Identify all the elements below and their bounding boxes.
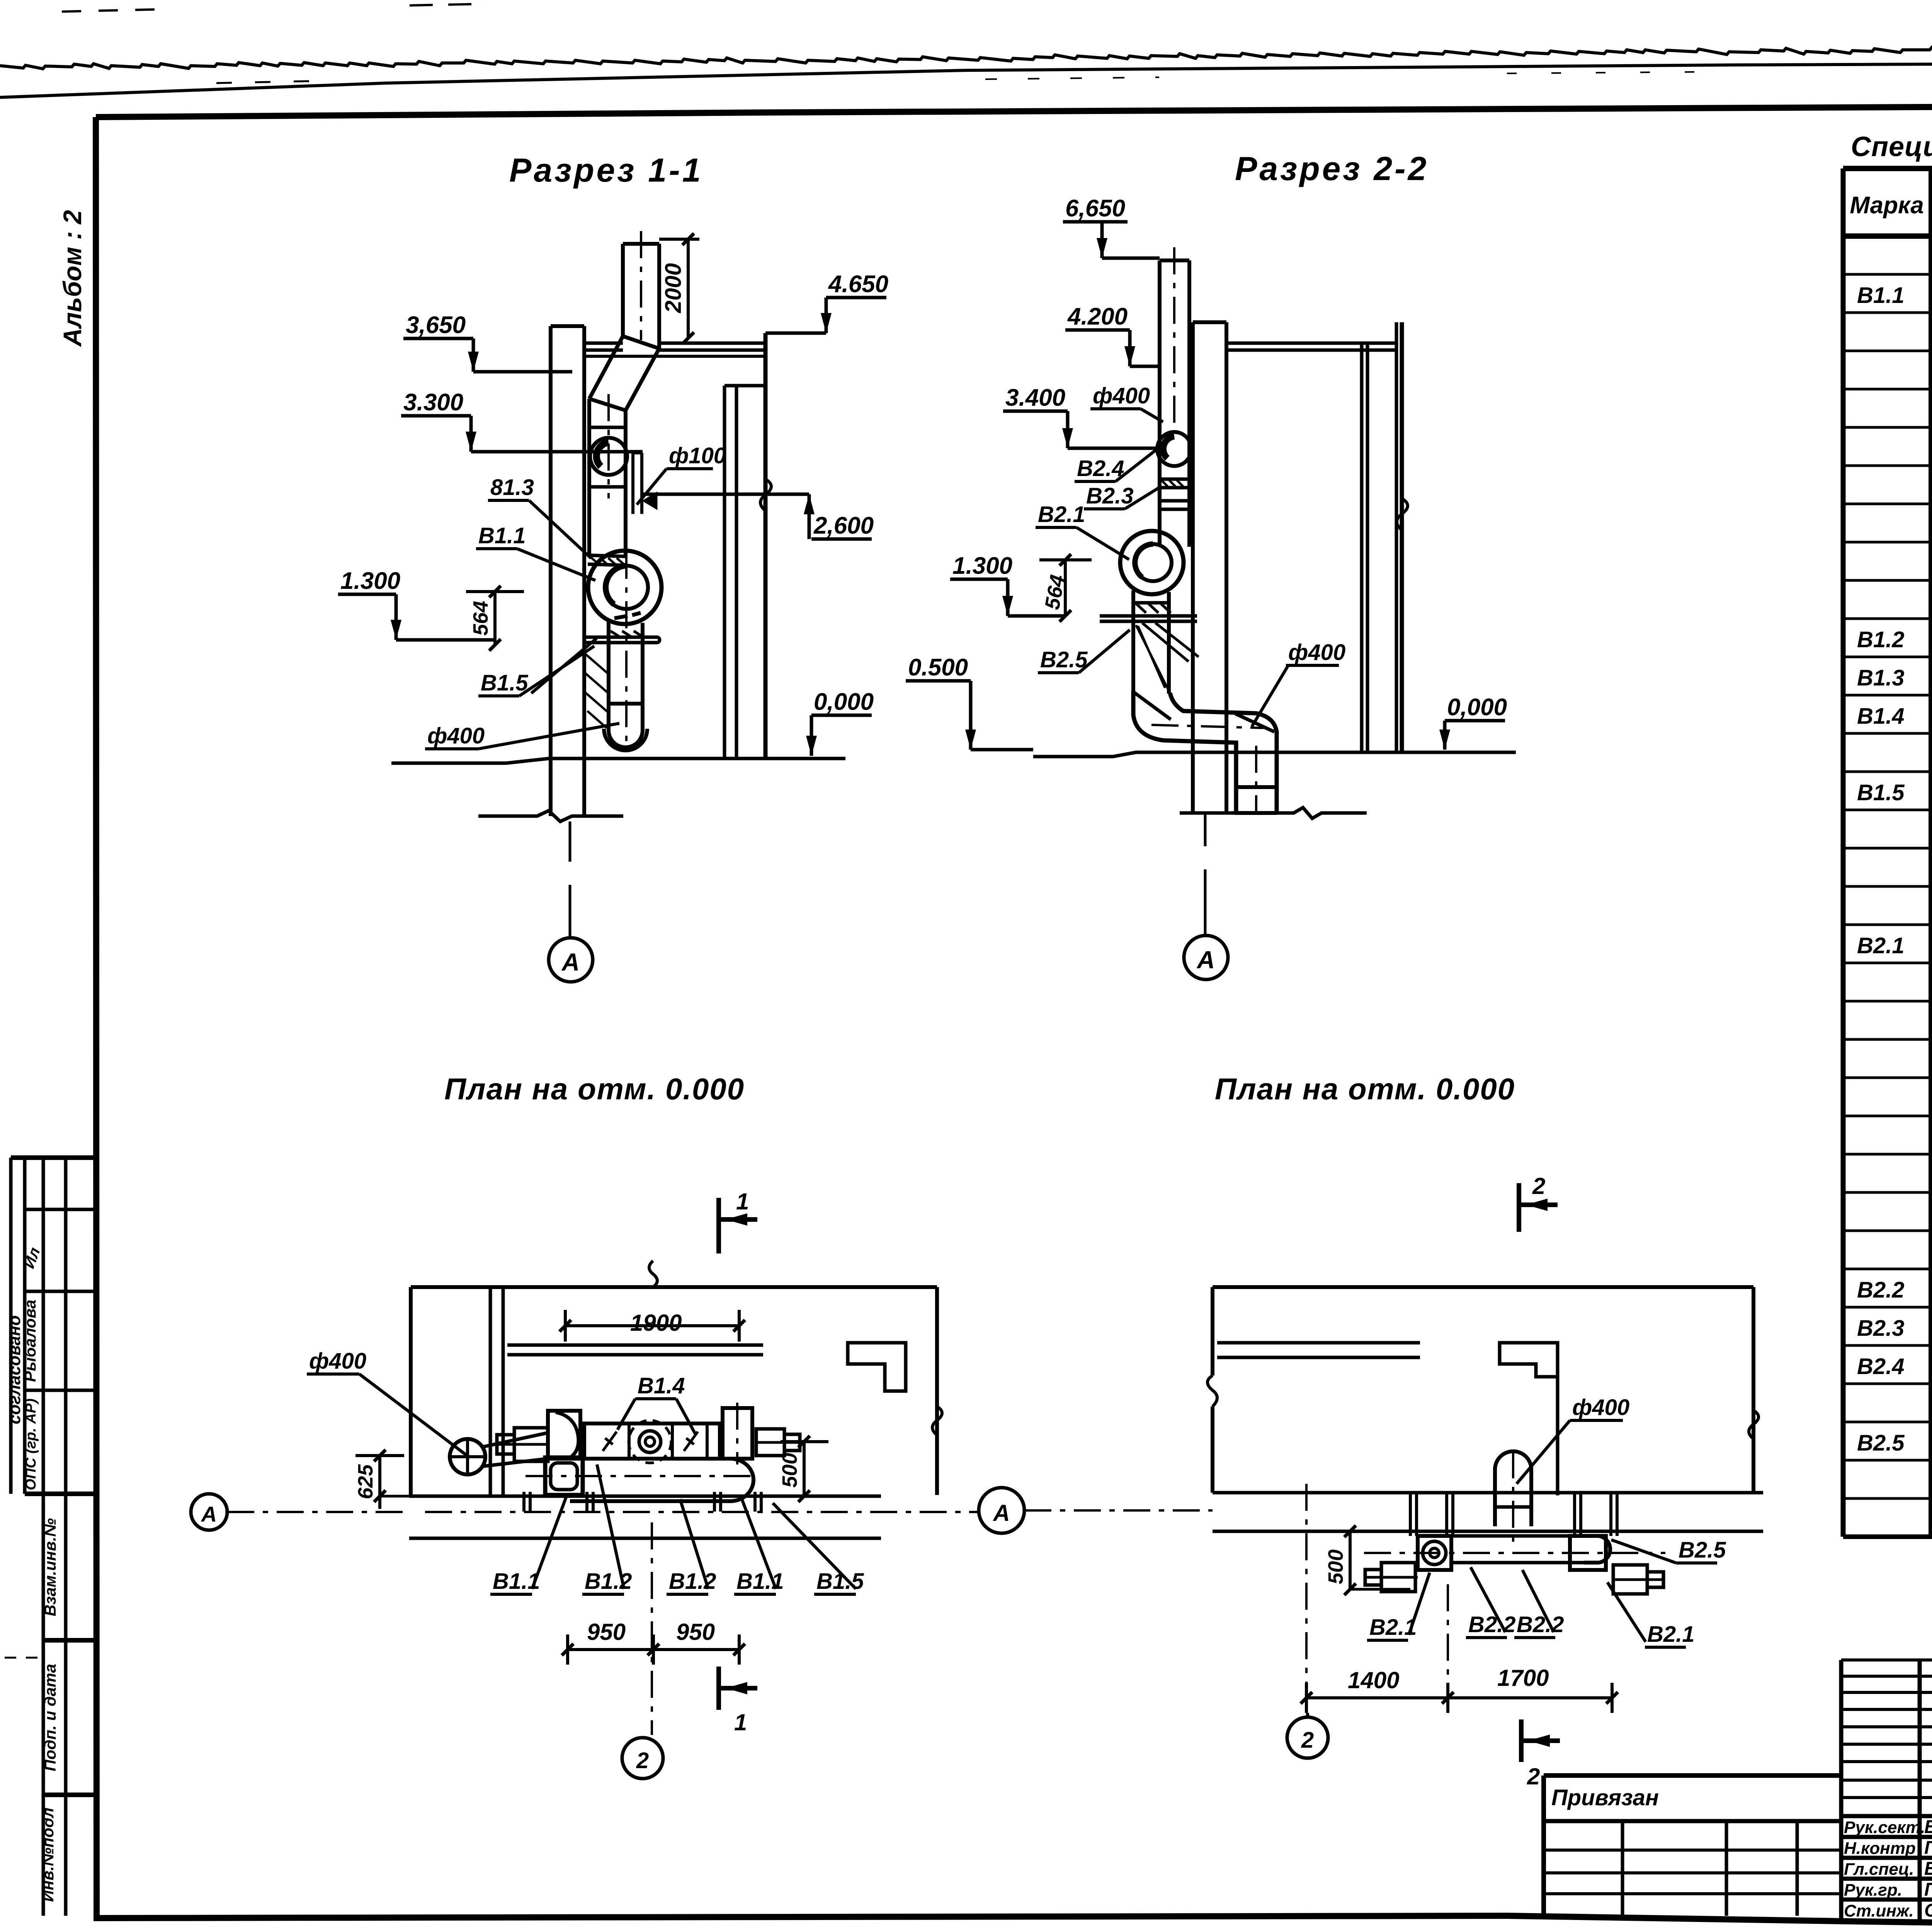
privyazan box [1544, 1773, 1841, 1778]
check valve V1.4 circle [590, 438, 627, 475]
plan 1: dim 625 [378, 1456, 381, 1509]
svg-text:4.650: 4.650 [828, 271, 888, 298]
section 1-1: wall break squiggle right [760, 479, 771, 511]
svg-text:В2.4: В2.4 [1857, 1354, 1905, 1379]
svg-text:ф400: ф400 [427, 723, 485, 748]
svg-text:Бородин: Бородин [1924, 1817, 1932, 1837]
svg-text:В1.1: В1.1 [736, 1569, 784, 1594]
svg-text:ф400: ф400 [1288, 640, 1345, 665]
plan 1: right support column [723, 1408, 752, 1459]
section 1-1: right wall [723, 386, 726, 759]
plan 1: check valve plan circle [639, 1431, 661, 1452]
svg-text:6,650: 6,650 [1065, 195, 1125, 222]
vibration support V2.5 [1100, 614, 1197, 618]
check valve V2.4 [1157, 432, 1191, 466]
svg-text:В2.1: В2.1 [1369, 1615, 1417, 1640]
svg-text:А: А [1196, 946, 1215, 974]
plan 1: right wall edge + break [935, 1287, 939, 1495]
svg-text:500: 500 [778, 1453, 801, 1488]
svg-text:2: 2 [1527, 1764, 1540, 1789]
svg-text:План на отм. 0.000: План на отм. 0.000 [444, 1072, 745, 1106]
section 2-2: ceiling slab [1226, 342, 1396, 345]
svg-text:Марка: Марка [1850, 192, 1923, 219]
svg-text:В1.2: В1.2 [585, 1569, 632, 1594]
dim 2000 vertical [687, 239, 690, 338]
plan 1: axis 2 circle [651, 1522, 653, 1735]
plan 1: intake cone + circle [450, 1439, 485, 1475]
svg-text:В1.5: В1.5 [481, 670, 528, 696]
svg-text:81.3: 81.3 [490, 475, 534, 500]
dim 564 (sec 2-2) [1064, 560, 1067, 616]
section 2-2: tall exhaust pipe [1158, 260, 1162, 433]
plan 1: axis A circle right (shared) [979, 1488, 1024, 1533]
svg-text:564: 564 [469, 601, 492, 636]
fan outlet duct down [1131, 590, 1135, 692]
svg-text:В1.4: В1.4 [638, 1373, 685, 1398]
fan V2.1 [1120, 531, 1184, 594]
svg-text:Спецификация: Спецификация [1851, 131, 1932, 162]
svg-text:А: А [561, 948, 580, 976]
plan 2: legs crossing band [1409, 1493, 1412, 1536]
svg-text:В1.1: В1.1 [1857, 283, 1905, 308]
svg-text:В1.5: В1.5 [1857, 780, 1905, 805]
svg-text:Инв.№подл: Инв.№подл [39, 1808, 57, 1902]
plan 1: bolts left [514, 1428, 548, 1461]
svg-text:1900: 1900 [630, 1310, 682, 1336]
svg-text:В2.4: В2.4 [1077, 456, 1124, 481]
short duct below elbow [1236, 785, 1277, 789]
plan 1: dims 950 950 [568, 1648, 739, 1651]
svg-text:1.300: 1.300 [340, 568, 400, 594]
svg-text:План на отм. 0.000: План на отм. 0.000 [1215, 1072, 1515, 1106]
svg-text:2000: 2000 [661, 263, 686, 313]
svg-text:В1.1: В1.1 [493, 1569, 540, 1594]
svg-text:2: 2 [1532, 1173, 1545, 1199]
svg-text:Бородин: Бородин [1924, 1859, 1932, 1879]
axis line + circle A (sec 2-2) [1204, 815, 1207, 846]
svg-text:Н.контр: Н.контр [1844, 1839, 1916, 1858]
axis line down to A circle (sec 1-1) [569, 821, 571, 862]
svg-text:500: 500 [1324, 1549, 1347, 1584]
svg-text:Разрез 1-1: Разрез 1-1 [509, 152, 703, 189]
section 2-2: right wall [1360, 343, 1364, 752]
plan 1: vibration base rounded [570, 1459, 753, 1501]
ground line below (sec 2-2) [1180, 808, 1367, 818]
fan scroll to duct [607, 621, 611, 730]
section 1-1: vertical duct with check valve [587, 399, 591, 555]
plan 2: label leaders [1409, 1573, 1430, 1635]
svg-text:3.400: 3.400 [1005, 384, 1065, 411]
flexible insert V1.3 [589, 555, 626, 556]
torn paper edge (top) [0, 40, 1932, 69]
svg-text:4.200: 4.200 [1067, 303, 1128, 330]
spec table grid [1843, 166, 1932, 171]
svg-text:В2.2: В2.2 [1468, 1612, 1516, 1637]
plan 2: bolts left [1381, 1563, 1415, 1592]
dim 564 vertical [493, 592, 497, 645]
svg-text:А: А [201, 1502, 217, 1526]
svg-text:0,000: 0,000 [814, 689, 874, 715]
svg-text:В2.5: В2.5 [1679, 1537, 1726, 1563]
svg-text:В2.1: В2.1 [1647, 1622, 1695, 1647]
svg-text:0,000: 0,000 [1447, 694, 1507, 721]
svg-text:Альбом : 2: Альбом : 2 [58, 210, 87, 347]
svg-text:ОПС (гр. АР): ОПС (гр. АР) [23, 1398, 39, 1490]
plan 2: floor band [1213, 1491, 1763, 1495]
svg-text:В2.3: В2.3 [1857, 1316, 1905, 1341]
svg-text:В2.2: В2.2 [1857, 1277, 1905, 1303]
plan 1: label leaders [532, 1497, 566, 1589]
plan 1: floor band [409, 1495, 881, 1498]
svg-text:625: 625 [354, 1464, 377, 1499]
plan 2: room walls [1213, 1285, 1753, 1289]
wall break squiggle (sec2-2 right wall) [1397, 498, 1408, 530]
plan 1: room walls [411, 1285, 937, 1289]
stamp: vzam inv no [42, 1494, 45, 1916]
svg-text:ф400: ф400 [1093, 383, 1150, 408]
svg-text:950: 950 [587, 1619, 626, 1645]
svg-text:В2.3: В2.3 [1086, 483, 1134, 509]
svg-text:1700: 1700 [1497, 1665, 1549, 1691]
svg-text:3,650: 3,650 [406, 312, 466, 338]
vibration base V1.5 support [584, 636, 657, 639]
duct bottom rounded cap [609, 730, 643, 747]
scan specks top [216, 81, 309, 83]
plan 2: bolts right [1613, 1565, 1647, 1594]
small dashes left margin [5, 1657, 44, 1659]
svg-text:В1.1: В1.1 [478, 523, 526, 548]
svg-text:ф400: ф400 [1572, 1395, 1629, 1420]
top margin line [0, 61, 1932, 97]
plan 2: dims 1400 1700 [1306, 1696, 1612, 1699]
svg-text:В1.3: В1.3 [1857, 665, 1905, 690]
svg-text:1: 1 [736, 1189, 749, 1214]
svg-text:В1.2: В1.2 [669, 1569, 716, 1594]
section 1-1: duct elbow 45deg [623, 336, 659, 349]
section 2-2: center wall [1191, 322, 1195, 813]
svg-text:В2.5: В2.5 [1040, 647, 1088, 672]
plan 2: section cut mark 2 (top) [1517, 1183, 1521, 1232]
svg-text:Подольская: Подольская [1924, 1879, 1932, 1900]
plan 2: unit below floor [1418, 1536, 1451, 1570]
svg-text:Рук.сект.: Рук.сект. [1844, 1818, 1925, 1837]
plan 1: motor square [545, 1458, 583, 1495]
section 1-1: ceiling slab [584, 342, 623, 345]
svg-text:В1.4: В1.4 [1857, 704, 1905, 729]
title block: signature table grid [1839, 1660, 1844, 1920]
plan 1: section cut mark 1 (bottom) [716, 1667, 721, 1710]
plan 1: section cut mark 1 (top) [716, 1198, 721, 1253]
svg-text:Подп. и дата: Подп. и дата [41, 1664, 59, 1771]
svg-text:ф400: ф400 [309, 1349, 366, 1374]
svg-text:1.300: 1.300 [952, 553, 1012, 579]
svg-text:Смирнова: Смирнова [1924, 1900, 1932, 1921]
svg-text:2: 2 [1301, 1728, 1314, 1753]
plan 2: duct riser plan (rounded top) [1495, 1451, 1531, 1526]
svg-text:Гл.спец.: Гл.спец. [1844, 1860, 1914, 1879]
svg-text:950: 950 [676, 1619, 715, 1645]
support braces [531, 638, 597, 693]
svg-text:2: 2 [636, 1748, 649, 1773]
svg-text:В2.1: В2.1 [1038, 502, 1085, 527]
plan 2: dim 500 [1349, 1531, 1352, 1589]
svg-text:Привязан: Привязан [1551, 1785, 1659, 1810]
svg-text:1: 1 [734, 1709, 747, 1735]
plan 2: corner step feature [1500, 1343, 1558, 1377]
plan 1: flexible insert marks in duct [603, 1432, 617, 1451]
wall below floor + break [478, 811, 623, 821]
plan 2: beam lines [1217, 1341, 1420, 1345]
floor line (sec 2-2) [1033, 752, 1516, 757]
elbow down-right (sec 2-2) [1133, 691, 1277, 813]
svg-text:2,600: 2,600 [813, 512, 874, 539]
plan 2: left wall break [1207, 1376, 1217, 1406]
plan 1: beam double line [507, 1344, 763, 1347]
plan 1: right corner step [848, 1343, 906, 1391]
svg-text:Взам.инв.№: Взам.инв.№ [41, 1518, 59, 1616]
section 1-1: left wall column [549, 326, 553, 816]
svg-text:Гаврилюк: Гаврилюк [1924, 1838, 1932, 1858]
plan 2: axis 2 circle [1306, 1713, 1309, 1717]
fan V1.1 [588, 551, 662, 624]
side stamp: soglasovano group [11, 1155, 94, 1160]
svg-text:А: А [992, 1500, 1010, 1526]
svg-text:Рук.гр.: Рук.гр. [1844, 1881, 1902, 1900]
axis circle A (section 1-1) [549, 938, 593, 982]
svg-text:3.300: 3.300 [403, 389, 463, 416]
plan 1: fan scroll square [548, 1411, 580, 1459]
stamp: podp i data [43, 1793, 94, 1797]
svg-text:В1.2: В1.2 [1857, 627, 1905, 652]
svg-text:В2.5: В2.5 [1857, 1430, 1905, 1456]
plan 1: bolts right [756, 1429, 784, 1456]
f100 pipe stub [631, 453, 634, 514]
svg-text:Разрез 2-2: Разрез 2-2 [1235, 150, 1429, 187]
plan 1: support legs [522, 1492, 526, 1512]
floor line 0.000 [391, 759, 845, 763]
svg-text:1400: 1400 [1348, 1667, 1399, 1693]
svg-text:Рыбалова: Рыбалова [21, 1299, 39, 1382]
svg-text:ф100: ф100 [669, 443, 726, 468]
svg-text:В2.1: В2.1 [1857, 933, 1905, 958]
plan 2: section cut mark 2 (bottom) [1519, 1719, 1524, 1762]
duct flanges + flexible insert V2.3 [1158, 433, 1162, 547]
svg-text:Ст.инж.: Ст.инж. [1844, 1901, 1914, 1920]
plan 1: axis A circle left [191, 1494, 227, 1530]
f100 drain arrow marker [645, 494, 656, 508]
svg-text:0.500: 0.500 [908, 654, 968, 681]
svg-text:В2.2: В2.2 [1517, 1612, 1564, 1637]
plan 1: dim 500 [803, 1442, 806, 1496]
section 1-1: roof duct stub [621, 244, 625, 336]
plan 1: unit duct rect [584, 1423, 720, 1459]
plan 1: top wall break [649, 1261, 657, 1287]
sheet frame [96, 105, 1932, 117]
